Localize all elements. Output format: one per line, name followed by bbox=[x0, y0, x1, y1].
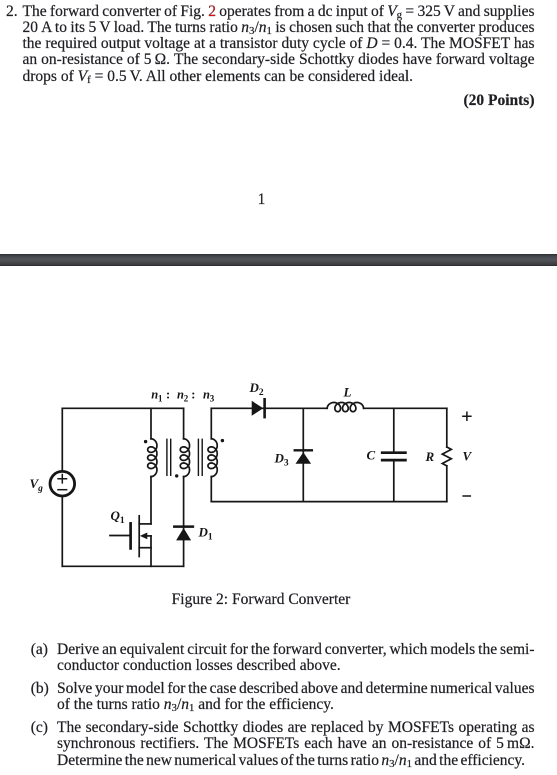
figure caption bbox=[100, 592, 422, 608]
wire: secondary top rail left bbox=[211, 407, 327, 409]
polarity dot n2 bbox=[175, 474, 178, 477]
circuit schematic bbox=[0, 370, 557, 620]
svg-text:C: C bbox=[367, 448, 376, 463]
wire: input left vertical upper bbox=[61, 408, 63, 471]
svg-text:D2: D2 bbox=[249, 380, 264, 398]
item (c) bbox=[31, 720, 48, 736]
output plus bbox=[463, 412, 471, 420]
svg-text:D1: D1 bbox=[198, 525, 213, 543]
transformer core 2 bbox=[198, 439, 202, 475]
diode D3 bbox=[295, 449, 312, 451]
svg-text:D3: D3 bbox=[274, 451, 289, 469]
capacitor C bbox=[393, 408, 395, 451]
svg-text:n1:n2:n3: n1:n2:n3 bbox=[151, 388, 214, 404]
inductor L bbox=[327, 403, 363, 412]
problem statement block bbox=[6, 4, 18, 20]
resistor R bbox=[446, 408, 448, 447]
wire: D3 branch bbox=[302, 408, 304, 501]
svg-text:R: R bbox=[425, 449, 435, 464]
item (b) bbox=[31, 681, 49, 697]
item (a) bbox=[31, 642, 48, 658]
transformer winding n2 bbox=[183, 408, 185, 439]
diode D2 bbox=[252, 401, 264, 416]
wire: primary bottom rail bbox=[62, 565, 183, 567]
wire: secondary top rail right bbox=[364, 407, 447, 409]
diode D1 bbox=[174, 525, 193, 528]
transformer core bbox=[167, 439, 171, 475]
svg-text:Q1: Q1 bbox=[111, 508, 125, 526]
svg-text:V: V bbox=[463, 449, 473, 464]
wire: primary top rail bbox=[62, 407, 183, 409]
voltage source Vg bbox=[50, 471, 75, 496]
transformer winding n1 bbox=[150, 408, 152, 439]
svg-text:Vg: Vg bbox=[30, 476, 44, 494]
transformer winding n3 bbox=[210, 408, 212, 439]
page separator band bbox=[0, 254, 557, 266]
output minus bbox=[463, 495, 470, 497]
MOSFET Q1 bbox=[139, 523, 151, 525]
svg-text:L: L bbox=[343, 385, 352, 400]
polarity dot n1 bbox=[144, 440, 147, 443]
wire: secondary bottom rail bbox=[211, 501, 446, 503]
polarity dot n3 bbox=[221, 439, 224, 442]
page number 1 bbox=[242, 192, 282, 208]
wire: input left vertical lower bbox=[61, 496, 63, 566]
